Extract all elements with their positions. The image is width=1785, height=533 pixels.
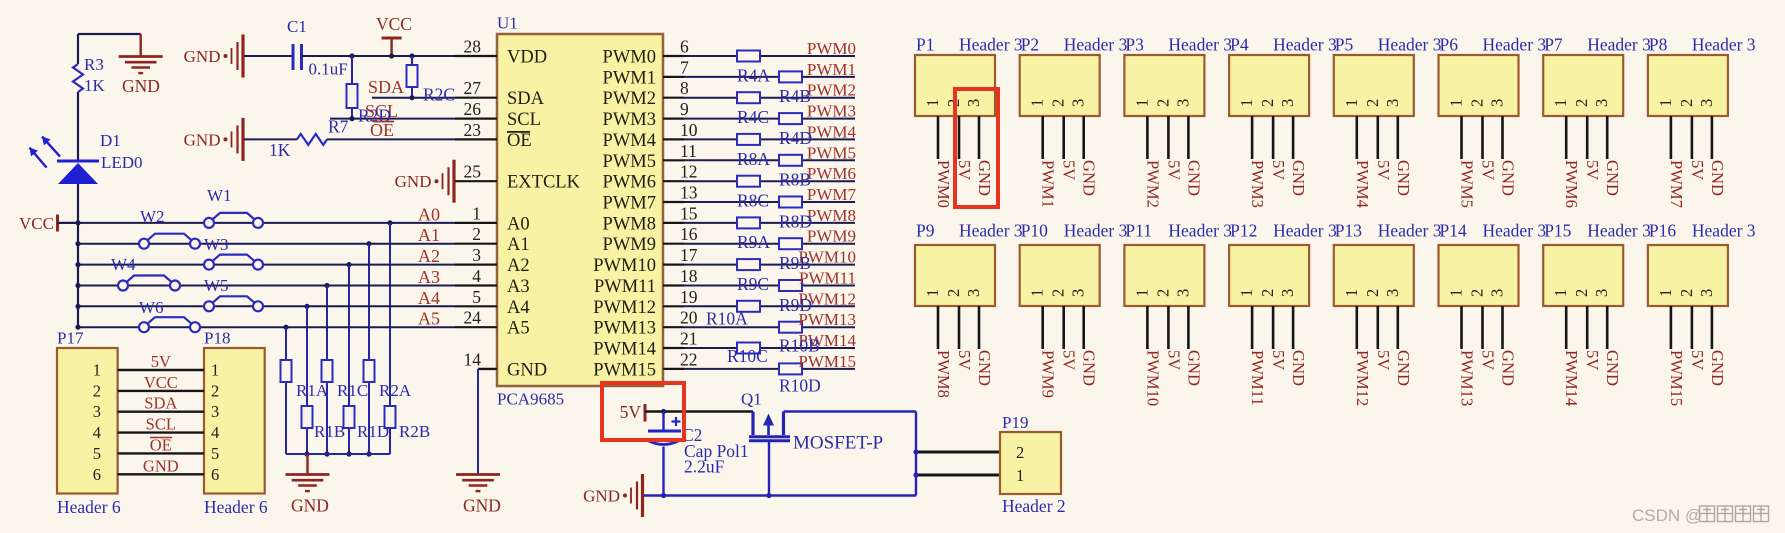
svg-text:PWM11: PWM11 — [594, 277, 656, 297]
svg-text:P1: P1 — [916, 35, 934, 55]
svg-text:U1: U1 — [497, 14, 518, 33]
svg-text:1K: 1K — [269, 140, 291, 160]
svg-text:R9C: R9C — [737, 274, 769, 294]
svg-text:R9B: R9B — [779, 253, 811, 273]
svg-text:5V: 5V — [1269, 350, 1288, 370]
svg-text:16: 16 — [680, 224, 698, 244]
svg-text:Header 3: Header 3 — [1168, 35, 1232, 55]
svg-text:5V: 5V — [1688, 350, 1707, 370]
svg-text:A4: A4 — [507, 298, 530, 318]
svg-text:5: 5 — [93, 444, 101, 463]
svg-text:Header 3: Header 3 — [1064, 35, 1128, 55]
svg-text:SCL: SCL — [507, 110, 541, 130]
svg-text:5V: 5V — [1479, 350, 1498, 370]
svg-text:R2B: R2B — [399, 422, 430, 441]
svg-text:0.1uF: 0.1uF — [309, 60, 348, 79]
svg-text:GND: GND — [1499, 160, 1518, 196]
svg-text:5: 5 — [472, 287, 481, 307]
svg-text:P13: P13 — [1335, 221, 1362, 241]
svg-text:3: 3 — [1697, 289, 1716, 297]
svg-text:W4: W4 — [111, 255, 136, 274]
svg-text:PWM9: PWM9 — [603, 235, 656, 255]
svg-text:Q1: Q1 — [741, 390, 762, 409]
svg-text:Header 3: Header 3 — [1273, 221, 1337, 241]
svg-text:PWM4: PWM4 — [603, 131, 656, 151]
svg-text:P2: P2 — [1021, 35, 1039, 55]
svg-text:SDA: SDA — [507, 89, 545, 109]
svg-text:P14: P14 — [1440, 221, 1467, 241]
svg-text:3: 3 — [1173, 289, 1192, 297]
svg-text:PWM14: PWM14 — [1562, 350, 1581, 407]
svg-text:2: 2 — [1572, 99, 1591, 107]
svg-text:1: 1 — [472, 203, 481, 223]
svg-text:PWM15: PWM15 — [1667, 350, 1686, 406]
svg-text:PWM0: PWM0 — [934, 160, 953, 208]
svg-text:R1C: R1C — [337, 381, 368, 400]
svg-text:P9: P9 — [916, 221, 935, 241]
svg-text:PWM13: PWM13 — [1458, 350, 1477, 406]
svg-text:PWM1: PWM1 — [603, 68, 656, 88]
svg-text:LED0: LED0 — [101, 153, 143, 172]
svg-text:R10D: R10D — [779, 376, 821, 396]
svg-text:R10B: R10B — [779, 336, 820, 356]
svg-text:OE: OE — [370, 120, 394, 140]
svg-text:2: 2 — [1153, 99, 1172, 107]
svg-text:A1: A1 — [418, 225, 440, 245]
svg-text:2: 2 — [1258, 289, 1277, 297]
svg-text:3: 3 — [93, 402, 101, 421]
svg-text:2: 2 — [1677, 289, 1696, 297]
svg-text:P8: P8 — [1649, 35, 1668, 55]
svg-text:SCL: SCL — [146, 415, 176, 434]
svg-text:3: 3 — [1488, 99, 1507, 107]
svg-text:2: 2 — [1468, 99, 1487, 107]
svg-text:6: 6 — [211, 465, 219, 484]
svg-text:2: 2 — [1049, 99, 1068, 107]
svg-text:GND: GND — [1184, 160, 1203, 196]
svg-text:PWM7: PWM7 — [1667, 160, 1686, 208]
svg-text:R3: R3 — [84, 55, 104, 74]
svg-text:5V: 5V — [1374, 350, 1393, 370]
svg-text:A1: A1 — [507, 235, 530, 255]
svg-text:PWM8: PWM8 — [807, 206, 856, 225]
svg-text:GND: GND — [1499, 350, 1518, 386]
svg-text:GND: GND — [1394, 160, 1413, 196]
svg-text:GND: GND — [122, 76, 160, 96]
svg-text:5V: 5V — [955, 160, 974, 180]
svg-text:4: 4 — [472, 266, 481, 286]
svg-text:3: 3 — [1278, 99, 1297, 107]
svg-text:25: 25 — [464, 162, 482, 182]
svg-text:5V: 5V — [1479, 160, 1498, 180]
svg-text:Header 3: Header 3 — [1064, 221, 1128, 241]
svg-text:R4D: R4D — [779, 128, 812, 148]
svg-text:P11: P11 — [1125, 221, 1152, 241]
svg-text:5V: 5V — [1060, 350, 1079, 370]
svg-text:2: 2 — [93, 381, 101, 400]
svg-text:W3: W3 — [204, 235, 229, 254]
svg-text:P3: P3 — [1125, 35, 1144, 55]
svg-text:GND: GND — [1289, 160, 1308, 196]
svg-text:3: 3 — [1697, 99, 1716, 107]
svg-text:5V: 5V — [1269, 160, 1288, 180]
svg-text:3: 3 — [1383, 99, 1402, 107]
svg-text:14: 14 — [464, 349, 482, 369]
svg-text:D1: D1 — [100, 131, 121, 150]
svg-text:PWM6: PWM6 — [1562, 160, 1581, 208]
svg-text:1: 1 — [1656, 289, 1675, 297]
svg-text:5V: 5V — [1164, 350, 1183, 370]
svg-text:A2: A2 — [507, 256, 530, 276]
svg-text:5V: 5V — [151, 352, 171, 371]
svg-text:R8A: R8A — [737, 149, 770, 169]
svg-text:3: 3 — [1383, 289, 1402, 297]
svg-text:GND: GND — [1184, 350, 1203, 386]
svg-text:W5: W5 — [204, 276, 229, 295]
svg-text:4: 4 — [211, 423, 219, 442]
svg-text:1: 1 — [1447, 99, 1466, 107]
svg-text:26: 26 — [464, 99, 482, 119]
svg-text:R1B: R1B — [314, 422, 345, 441]
svg-text:28: 28 — [464, 37, 482, 57]
svg-text:GND: GND — [1708, 160, 1727, 196]
svg-text:2: 2 — [1572, 289, 1591, 297]
svg-text:C1: C1 — [287, 17, 307, 36]
svg-text:Header 3: Header 3 — [1378, 221, 1442, 241]
svg-text:PWM7: PWM7 — [603, 194, 656, 214]
svg-text:P16: P16 — [1649, 221, 1676, 241]
svg-text:19: 19 — [680, 287, 698, 307]
svg-text:2: 2 — [1363, 289, 1382, 297]
svg-text:W1: W1 — [207, 186, 232, 205]
svg-text:R9A: R9A — [737, 232, 770, 252]
svg-text:7: 7 — [680, 57, 689, 77]
svg-text:PWM4: PWM4 — [807, 122, 857, 141]
svg-text:R8B: R8B — [779, 170, 811, 190]
svg-text:PCA9685: PCA9685 — [497, 390, 564, 409]
svg-text:1: 1 — [1028, 289, 1047, 297]
svg-text:PWM2: PWM2 — [807, 81, 856, 100]
svg-text:GND: GND — [143, 456, 179, 475]
svg-text:3: 3 — [1278, 289, 1297, 297]
svg-text:Header 6: Header 6 — [204, 497, 268, 517]
svg-text:PWM9: PWM9 — [807, 227, 856, 246]
svg-text:MOSFET-P: MOSFET-P — [793, 433, 883, 454]
svg-text:6: 6 — [680, 37, 689, 57]
svg-text:PWM8: PWM8 — [603, 214, 656, 234]
svg-text:GND: GND — [1394, 350, 1413, 386]
svg-text:21: 21 — [680, 329, 698, 349]
svg-text:PWM7: PWM7 — [807, 185, 857, 204]
svg-text:2: 2 — [211, 381, 219, 400]
svg-text:3: 3 — [1173, 99, 1192, 107]
svg-text:PWM2: PWM2 — [1143, 160, 1162, 208]
svg-text:P5: P5 — [1335, 35, 1354, 55]
svg-text:P7: P7 — [1544, 35, 1563, 55]
svg-text:A0: A0 — [507, 214, 530, 234]
svg-text:23: 23 — [464, 120, 482, 140]
svg-text:2: 2 — [1677, 99, 1696, 107]
svg-text:5V: 5V — [1583, 160, 1602, 180]
svg-text:W6: W6 — [139, 298, 164, 317]
svg-text:PWM10: PWM10 — [1143, 350, 1162, 406]
svg-text:2: 2 — [1153, 289, 1172, 297]
svg-text:2: 2 — [472, 224, 481, 244]
svg-text:PWM12: PWM12 — [1353, 350, 1372, 406]
svg-text:R10C: R10C — [727, 346, 768, 366]
svg-text:P18: P18 — [204, 329, 230, 348]
svg-text:27: 27 — [464, 78, 482, 98]
svg-text:P10: P10 — [1021, 221, 1048, 241]
svg-text:PWM3: PWM3 — [807, 102, 856, 121]
svg-text:2: 2 — [1049, 289, 1068, 297]
svg-text:SDA: SDA — [368, 77, 404, 97]
svg-text:18: 18 — [680, 266, 698, 286]
svg-text:GND: GND — [975, 160, 994, 196]
svg-text:GND: GND — [1603, 350, 1622, 386]
svg-text:4: 4 — [93, 423, 101, 442]
svg-text:PWM12: PWM12 — [593, 298, 656, 318]
svg-text:1: 1 — [1551, 289, 1570, 297]
svg-text:1: 1 — [1551, 99, 1570, 107]
svg-text:1: 1 — [93, 361, 101, 380]
svg-text:A5: A5 — [507, 319, 530, 339]
svg-text:PWM2: PWM2 — [603, 89, 656, 109]
svg-text:R1D: R1D — [357, 422, 389, 441]
svg-text:2: 2 — [1363, 99, 1382, 107]
svg-text:P17: P17 — [57, 329, 84, 348]
svg-text:PWM1: PWM1 — [1039, 160, 1058, 208]
svg-text:R9D: R9D — [779, 295, 812, 315]
svg-text:GND: GND — [507, 360, 547, 380]
svg-text:PWM3: PWM3 — [1248, 160, 1267, 208]
svg-text:20: 20 — [680, 308, 698, 328]
svg-text:13: 13 — [680, 183, 698, 203]
svg-text:A2: A2 — [418, 246, 440, 266]
svg-text:VCC: VCC — [19, 214, 54, 233]
svg-text:VDD: VDD — [507, 48, 547, 68]
svg-text:8: 8 — [680, 78, 689, 98]
svg-text:R4B: R4B — [779, 86, 811, 106]
svg-text:2: 2 — [1468, 289, 1487, 297]
svg-text:1: 1 — [1028, 99, 1047, 107]
svg-text:PWM5: PWM5 — [603, 152, 656, 172]
svg-text:GND: GND — [463, 496, 501, 516]
svg-text:Header 3: Header 3 — [1273, 35, 1337, 55]
svg-text:17: 17 — [680, 245, 698, 265]
svg-text:R8D: R8D — [779, 211, 812, 231]
svg-text:1: 1 — [923, 99, 942, 107]
svg-text:22: 22 — [680, 349, 698, 369]
svg-text:3: 3 — [211, 402, 219, 421]
svg-text:3: 3 — [1488, 289, 1507, 297]
svg-text:10: 10 — [680, 120, 698, 140]
svg-text:PWM5: PWM5 — [1458, 160, 1477, 208]
svg-text:5V: 5V — [1060, 160, 1079, 180]
svg-text:5V: 5V — [1583, 350, 1602, 370]
svg-text:1: 1 — [1342, 99, 1361, 107]
svg-text:EXTCLK: EXTCLK — [507, 173, 581, 193]
svg-text:A3: A3 — [507, 277, 530, 297]
svg-text:Header 6: Header 6 — [57, 497, 121, 517]
svg-text:R7: R7 — [328, 117, 349, 137]
svg-text:P6: P6 — [1440, 35, 1459, 55]
svg-text:5: 5 — [211, 444, 219, 463]
svg-text:A0: A0 — [418, 204, 440, 224]
svg-text:15: 15 — [680, 203, 698, 223]
svg-text:VCC: VCC — [376, 14, 412, 34]
svg-text:3: 3 — [1592, 99, 1611, 107]
svg-text:PWM6: PWM6 — [807, 164, 856, 183]
svg-text:A5: A5 — [418, 309, 440, 329]
svg-text:3: 3 — [964, 99, 983, 107]
svg-text:1: 1 — [1016, 466, 1024, 485]
svg-text:2.2uF: 2.2uF — [684, 457, 725, 477]
svg-text:Header 3: Header 3 — [959, 35, 1023, 55]
svg-text:P4: P4 — [1230, 35, 1249, 55]
svg-text:3: 3 — [472, 245, 481, 265]
svg-text:24: 24 — [464, 308, 482, 328]
svg-text:PWM13: PWM13 — [593, 319, 656, 339]
svg-text:1K: 1K — [84, 76, 106, 95]
svg-text:PWM3: PWM3 — [603, 110, 656, 130]
svg-text:Header 3: Header 3 — [1483, 221, 1547, 241]
svg-text:5V: 5V — [1164, 160, 1183, 180]
svg-text:Header 2: Header 2 — [1002, 496, 1066, 516]
svg-text:R4C: R4C — [737, 107, 769, 127]
svg-text:5V: 5V — [620, 402, 642, 422]
svg-text:P12: P12 — [1230, 221, 1257, 241]
svg-text:1: 1 — [1237, 289, 1256, 297]
svg-text:SDA: SDA — [144, 394, 177, 413]
svg-text:PWM0: PWM0 — [603, 48, 656, 68]
svg-text:11: 11 — [680, 141, 697, 161]
svg-text:3: 3 — [964, 289, 983, 297]
svg-text:1: 1 — [1342, 289, 1361, 297]
svg-text:3: 3 — [1069, 99, 1088, 107]
svg-text:PWM9: PWM9 — [1039, 350, 1058, 398]
svg-text:9: 9 — [680, 99, 689, 119]
svg-text:1: 1 — [1132, 289, 1151, 297]
svg-text:CSDN @: CSDN @ — [1632, 506, 1702, 525]
svg-text:2: 2 — [1016, 443, 1024, 462]
svg-text:PWM15: PWM15 — [593, 360, 656, 380]
svg-text:R1A: R1A — [296, 381, 329, 400]
svg-text:Header 3: Header 3 — [1168, 221, 1232, 241]
svg-text:2: 2 — [944, 289, 963, 297]
svg-text:6: 6 — [93, 465, 101, 484]
svg-text:12: 12 — [680, 162, 698, 182]
svg-text:P19: P19 — [1002, 413, 1028, 432]
svg-text:OE: OE — [507, 131, 532, 151]
svg-text:PWM5: PWM5 — [807, 143, 856, 162]
svg-text:2: 2 — [1258, 99, 1277, 107]
svg-text:A4: A4 — [418, 288, 440, 308]
svg-text:Header 3: Header 3 — [959, 221, 1023, 241]
svg-text:3: 3 — [1069, 289, 1088, 297]
svg-text:GND: GND — [1080, 350, 1099, 386]
svg-text:VCC: VCC — [144, 373, 178, 392]
svg-text:5V: 5V — [1374, 160, 1393, 180]
svg-text:PWM8: PWM8 — [934, 350, 953, 398]
svg-text:5V: 5V — [955, 350, 974, 370]
svg-text:GND: GND — [1603, 160, 1622, 196]
svg-text:Header 3: Header 3 — [1692, 221, 1756, 241]
svg-text:GND: GND — [291, 496, 329, 516]
svg-text:1: 1 — [1132, 99, 1151, 107]
svg-text:PWM4: PWM4 — [1353, 160, 1372, 209]
svg-text:GND: GND — [1080, 160, 1099, 196]
svg-text:PWM11: PWM11 — [1248, 350, 1267, 406]
svg-text:R4A: R4A — [737, 65, 770, 85]
svg-text:1: 1 — [211, 361, 219, 380]
svg-text:1: 1 — [1447, 289, 1466, 297]
svg-text:5V: 5V — [1688, 160, 1707, 180]
svg-text:R2A: R2A — [379, 381, 412, 400]
svg-text:GND: GND — [975, 350, 994, 386]
svg-text:1: 1 — [1656, 99, 1675, 107]
svg-text:R8C: R8C — [737, 191, 769, 211]
svg-text:PWM14: PWM14 — [593, 340, 656, 360]
svg-text:PWM10: PWM10 — [593, 256, 656, 276]
svg-text:GND: GND — [1708, 350, 1727, 386]
svg-text:PWM1: PWM1 — [807, 60, 856, 79]
svg-text:Header 3: Header 3 — [1378, 35, 1442, 55]
svg-text:1: 1 — [923, 289, 942, 297]
svg-text:R2C: R2C — [423, 85, 455, 105]
svg-text:A3: A3 — [418, 267, 440, 287]
svg-text:W2: W2 — [140, 207, 165, 226]
svg-text:Header 3: Header 3 — [1483, 35, 1547, 55]
svg-text:GND: GND — [1289, 350, 1308, 386]
svg-text:Header 3: Header 3 — [1587, 221, 1651, 241]
svg-text:Header 3: Header 3 — [1587, 35, 1651, 55]
svg-text:Header 3: Header 3 — [1692, 35, 1756, 55]
svg-text:R10A: R10A — [706, 309, 748, 329]
svg-text:PWM0: PWM0 — [807, 39, 856, 58]
svg-text:PWM6: PWM6 — [603, 173, 656, 193]
svg-text:3: 3 — [1592, 289, 1611, 297]
svg-text:P15: P15 — [1544, 221, 1571, 241]
svg-text:1: 1 — [1237, 99, 1256, 107]
